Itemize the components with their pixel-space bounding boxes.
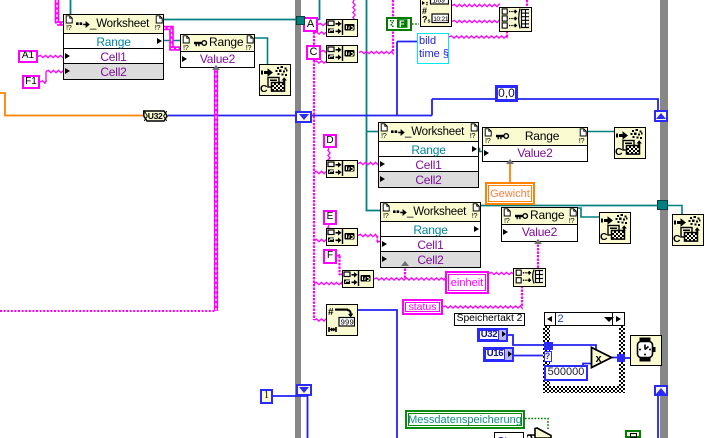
svg-text:C: C	[615, 146, 623, 156]
svg-text:U32: U32	[148, 111, 163, 121]
svg-text:1/89: 1/89	[432, 0, 445, 4]
svg-text:x: x	[596, 353, 603, 365]
svg-text:C: C	[600, 231, 608, 241]
svg-text:?s: ?s	[422, 15, 431, 25]
svg-text:10:21: 10:21	[433, 16, 449, 23]
svg-text:F: F	[399, 19, 405, 28]
svg-text:999: 999	[341, 318, 354, 327]
svg-text:C: C	[673, 233, 681, 243]
svg-text:#: #	[328, 307, 334, 318]
svg-text:C: C	[260, 83, 268, 93]
